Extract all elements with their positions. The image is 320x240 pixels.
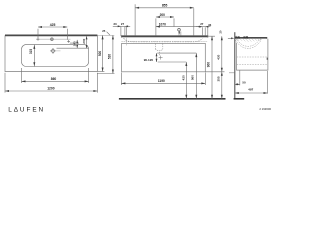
svg-text:1070: 1070 bbox=[159, 22, 166, 26]
svg-text:27: 27 bbox=[121, 22, 125, 26]
svg-text:33: 33 bbox=[208, 23, 212, 27]
svg-text:420: 420 bbox=[181, 75, 185, 80]
svg-text:315: 315 bbox=[29, 49, 33, 55]
svg-text:560: 560 bbox=[190, 75, 194, 80]
svg-text:27: 27 bbox=[200, 22, 204, 26]
svg-text:50: 50 bbox=[242, 81, 246, 85]
svg-text:140: 140 bbox=[73, 41, 77, 46]
svg-text:900: 900 bbox=[206, 62, 210, 68]
svg-text:2 193600: 2 193600 bbox=[259, 107, 271, 111]
svg-text:1200: 1200 bbox=[47, 87, 55, 91]
svg-text:25: 25 bbox=[102, 29, 106, 33]
svg-text:855: 855 bbox=[162, 4, 168, 8]
svg-text:LΔUFEN: LΔUFEN bbox=[8, 107, 45, 114]
svg-text:200: 200 bbox=[82, 38, 86, 43]
svg-text:425: 425 bbox=[50, 23, 56, 27]
svg-text:520: 520 bbox=[108, 54, 112, 60]
svg-text:355: 355 bbox=[216, 76, 220, 81]
svg-text:860: 860 bbox=[51, 77, 57, 81]
svg-text:200: 200 bbox=[160, 13, 166, 17]
svg-text:33: 33 bbox=[113, 22, 117, 26]
svg-text:90-120: 90-120 bbox=[144, 58, 154, 62]
svg-text:430: 430 bbox=[216, 54, 220, 59]
svg-text:497: 497 bbox=[248, 88, 253, 92]
svg-text:500: 500 bbox=[98, 51, 102, 57]
svg-text:1190: 1190 bbox=[158, 79, 165, 83]
